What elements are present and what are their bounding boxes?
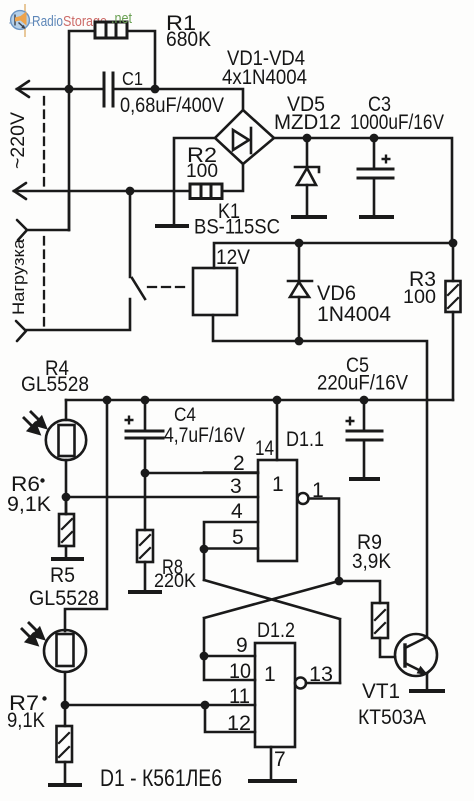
svg-text:VT1: VT1 xyxy=(362,680,400,703)
svg-text:GL5528: GL5528 xyxy=(29,587,99,610)
svg-text:~220V: ~220V xyxy=(8,112,29,169)
svg-text:R5: R5 xyxy=(50,564,75,587)
svg-text:9,1K: 9,1K xyxy=(7,709,45,732)
svg-text:680K: 680K xyxy=(166,28,211,51)
svg-text:100: 100 xyxy=(403,287,436,308)
svg-text:1: 1 xyxy=(272,473,284,496)
svg-text:13: 13 xyxy=(309,663,333,686)
svg-text:.net: .net xyxy=(111,10,133,27)
svg-text:9,1K: 9,1K xyxy=(7,493,51,516)
svg-text:10: 10 xyxy=(229,660,251,683)
svg-text:C1: C1 xyxy=(122,69,143,89)
svg-text:3: 3 xyxy=(230,475,242,498)
svg-text:C4: C4 xyxy=(174,405,196,426)
svg-text:11: 11 xyxy=(229,685,250,708)
svg-text:1000uF/16V: 1000uF/16V xyxy=(350,111,444,134)
svg-text:2: 2 xyxy=(233,452,245,475)
svg-text:1N4004: 1N4004 xyxy=(317,303,391,326)
svg-text:D1.2: D1.2 xyxy=(257,619,295,642)
svg-text:220uF/16V: 220uF/16V xyxy=(317,372,408,395)
svg-text:100: 100 xyxy=(186,161,218,182)
svg-text:Нагрузка: Нагрузка xyxy=(9,238,28,315)
svg-text:BS-115SC: BS-115SC xyxy=(194,216,280,239)
svg-text:Radio: Radio xyxy=(32,13,63,30)
svg-text:D1 - К561ЛЕ6: D1 - К561ЛЕ6 xyxy=(100,765,222,792)
svg-text:14: 14 xyxy=(255,437,274,460)
svg-text:0,68uF/400V: 0,68uF/400V xyxy=(120,94,224,117)
svg-text:12V: 12V xyxy=(216,246,250,269)
svg-text:GL5528: GL5528 xyxy=(21,373,89,396)
svg-text:4x1N4004: 4x1N4004 xyxy=(222,66,307,89)
svg-text:MZD12: MZD12 xyxy=(274,111,341,134)
svg-text:4,7uF/16V: 4,7uF/16V xyxy=(164,424,245,447)
svg-text:9: 9 xyxy=(236,634,248,657)
svg-text:КТ503А: КТ503А xyxy=(358,706,426,729)
svg-text:D1.1: D1.1 xyxy=(286,428,324,451)
svg-text:7: 7 xyxy=(274,748,286,771)
svg-text:5: 5 xyxy=(232,526,244,549)
svg-text:VD6: VD6 xyxy=(317,282,356,305)
svg-text:4: 4 xyxy=(231,500,243,523)
svg-text:220K: 220K xyxy=(154,571,196,592)
svg-text:1: 1 xyxy=(264,663,276,686)
svg-text:3,9K: 3,9K xyxy=(352,550,391,573)
svg-text:12: 12 xyxy=(227,712,251,735)
svg-text:1: 1 xyxy=(312,479,324,502)
